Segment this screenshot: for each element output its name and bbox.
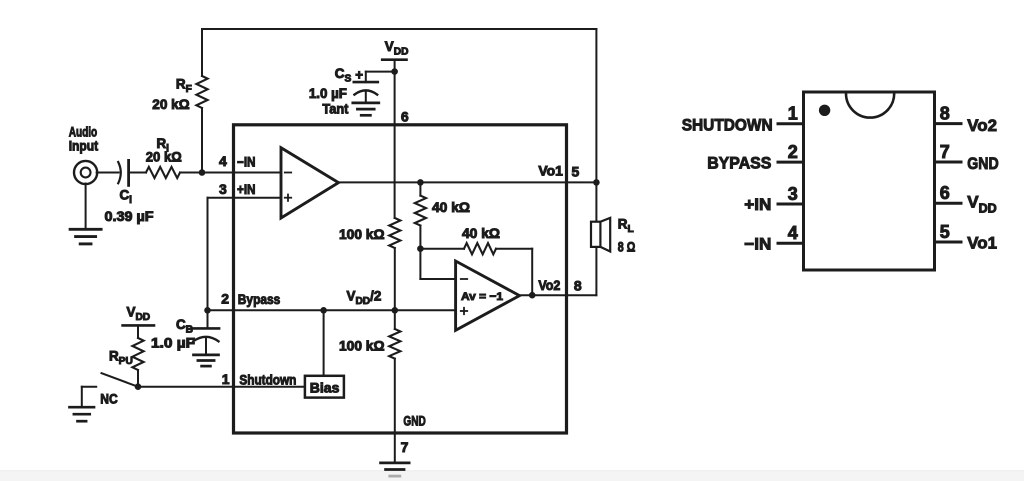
svg-text:CB: CB	[176, 317, 193, 336]
svg-text:VDD: VDD	[127, 305, 151, 324]
switch arm	[102, 373, 139, 387]
node A (input/RF junction)	[199, 169, 206, 176]
svg-text:Shutdown: Shutdown	[239, 373, 296, 388]
label +IN (schematic)	[237, 182, 256, 197]
pin 1 number	[788, 104, 798, 124]
resistor 40k horizontal	[464, 243, 496, 254]
svg-text:6: 6	[401, 109, 409, 125]
label CB	[176, 317, 193, 336]
pin 4 number	[788, 223, 798, 243]
svg-text:−IN: −IN	[744, 234, 771, 253]
wire bypass line	[208, 309, 456, 311]
Bias box	[305, 376, 344, 398]
svg-text:1.0 µF: 1.0 µF	[309, 86, 347, 101]
capacitor CS (polarized)	[354, 82, 378, 102]
VDD supply symbol	[382, 60, 406, 72]
pin 7 stub	[935, 161, 962, 164]
svg-text:−IN: −IN	[237, 155, 256, 170]
pin 8 label Vo2	[967, 116, 997, 135]
svg-text:Bias: Bias	[310, 381, 340, 396]
wire shutdown to Bias	[138, 386, 305, 388]
svg-text:VDD/2: VDD/2	[347, 289, 382, 308]
svg-text:RL: RL	[618, 217, 634, 236]
svg-text:SHUTDOWN: SHUTDOWN	[682, 116, 773, 135]
svg-text:GND: GND	[403, 414, 426, 429]
svg-text:Tant: Tant	[322, 102, 349, 117]
label Vo1 (schematic)	[538, 164, 563, 179]
svg-text:8: 8	[574, 278, 582, 294]
label pin 8	[574, 278, 582, 294]
svg-text:0.39 µF: 0.39 µF	[105, 209, 154, 224]
wire to Bias box	[323, 310, 325, 376]
label Ci	[120, 188, 133, 207]
wire 40k top lead	[419, 182, 421, 195]
ground (switch)	[70, 407, 95, 421]
svg-text:4: 4	[788, 223, 798, 243]
pin 2 stub	[778, 161, 804, 164]
label VDD (shutdown)	[127, 305, 151, 324]
label GND (schematic)	[403, 414, 426, 429]
wire op2 minus input	[420, 249, 455, 279]
op-amp U2	[456, 261, 520, 330]
label 100 kOhm (lower)	[339, 339, 385, 354]
node CB	[204, 307, 211, 314]
wire feedback down to Vo1	[595, 29, 597, 182]
wire RPU to node	[137, 370, 139, 387]
wire VDD to pin 6	[394, 72, 396, 218]
resistor RPU	[132, 338, 143, 370]
resistor Ri	[146, 167, 180, 178]
wire to 40k horizontal	[420, 248, 464, 250]
wire Ci to Ri	[129, 172, 146, 174]
node VDD/2	[392, 307, 399, 314]
svg-text:20 kΩ: 20 kΩ	[146, 150, 182, 165]
VDD bar (shutdown)	[123, 325, 154, 338]
label NC	[100, 392, 118, 407]
svg-text:Bypass: Bypass	[238, 292, 280, 307]
label 8 Ohm	[618, 240, 636, 255]
pin 4 label -IN	[744, 234, 771, 253]
IC boundary box	[234, 125, 567, 433]
svg-text:Vo2: Vo2	[538, 278, 560, 293]
label -IN (schematic)	[237, 155, 256, 170]
label pin 7	[401, 439, 409, 455]
capacitor Ci	[118, 160, 128, 185]
label 40 kOhm (horizontal)	[462, 226, 500, 241]
wire jack to Ci	[97, 172, 119, 174]
svg-text:100 kΩ: 100 kΩ	[339, 339, 385, 354]
label 0.39 uF	[105, 209, 154, 224]
pin 7 label GND	[967, 154, 998, 173]
svg-text:40 kΩ: 40 kΩ	[432, 200, 470, 215]
label 1.0 uF (CB)	[151, 336, 195, 351]
ground (CB)	[194, 355, 219, 366]
capacitor CB	[193, 310, 220, 354]
wire speaker to Vo2	[595, 247, 597, 295]
ground (pin 7)	[381, 463, 410, 476]
label Bias	[310, 381, 340, 396]
label VDD (top)	[385, 39, 409, 58]
package notch	[846, 94, 894, 118]
label Av=-1	[461, 291, 503, 303]
label CS	[335, 66, 352, 85]
wire 40k to Vo2	[496, 249, 532, 296]
resistor 100k lower	[389, 310, 400, 461]
label Audio Input	[69, 125, 99, 154]
pin 7 number	[940, 142, 950, 162]
wire VDD node to CS	[366, 72, 395, 83]
pin 3 label +IN	[744, 195, 771, 214]
label pin 5	[572, 164, 580, 180]
pin 6 label VDD	[967, 193, 996, 216]
node Vo2	[529, 292, 536, 299]
wire jack to ground	[85, 184, 87, 229]
svg-text:BYPASS: BYPASS	[707, 154, 771, 173]
label VDD/2	[347, 289, 382, 308]
wire top feedback	[202, 28, 596, 30]
svg-text:40 kΩ: 40 kΩ	[462, 226, 500, 241]
wire 40k bottom lead	[419, 226, 421, 249]
wire Vo1 to speaker	[595, 182, 597, 221]
pin 6 stub	[935, 202, 962, 205]
svg-text:Vo1: Vo1	[967, 234, 997, 253]
label 20 kOhm (Ri)	[146, 150, 182, 165]
svg-text:VDD: VDD	[967, 193, 996, 216]
label pin 4	[219, 153, 227, 169]
ground (input jack)	[70, 229, 101, 244]
pin 2 number	[788, 142, 798, 162]
pin 3 stub	[778, 203, 804, 206]
resistor RF	[196, 76, 207, 108]
label pin 6	[401, 109, 409, 125]
label RL	[618, 217, 634, 236]
svg-text:2: 2	[788, 142, 798, 162]
label 40 kOhm (vertical)	[432, 200, 470, 215]
switch contact	[82, 387, 96, 407]
svg-text:Vo2: Vo2	[967, 116, 997, 135]
wire op2 output	[520, 294, 597, 296]
label pin 1	[222, 371, 230, 387]
svg-text:7: 7	[401, 439, 409, 455]
svg-text:1: 1	[788, 104, 798, 124]
svg-text:20 kΩ: 20 kΩ	[152, 97, 190, 112]
node Bias junction	[320, 307, 327, 314]
node 40k junction	[417, 245, 424, 252]
pin 5 number	[940, 222, 950, 242]
svg-text:GND: GND	[967, 154, 998, 173]
pin 5 stub	[935, 241, 962, 244]
svg-text:+IN: +IN	[237, 182, 256, 197]
wire +IN pin 3	[208, 198, 282, 311]
label 100 kOhm (upper)	[339, 227, 385, 242]
svg-text:100 kΩ: 100 kΩ	[339, 227, 385, 242]
svg-text:1.0 µF: 1.0 µF	[151, 336, 195, 351]
resistor 100k upper	[389, 218, 400, 310]
node shutdown	[135, 383, 142, 390]
svg-text:2: 2	[221, 291, 229, 307]
label Shutdown (schematic)	[239, 373, 296, 388]
svg-text:5: 5	[572, 164, 580, 180]
pin 2 label BYPASS	[707, 154, 771, 173]
svg-text:Av = −1: Av = −1	[461, 291, 503, 303]
svg-text:3: 3	[788, 184, 798, 204]
svg-text:Audio: Audio	[69, 125, 98, 140]
page bottom band	[0, 471, 1024, 481]
label 20 kOhm (RF)	[152, 97, 190, 112]
svg-text:Ci: Ci	[120, 188, 133, 207]
wire RF top lead	[201, 29, 203, 76]
svg-text:Vo1: Vo1	[538, 164, 563, 179]
node VDD/CS	[391, 68, 398, 75]
svg-text:5: 5	[940, 222, 950, 242]
wire Vo1	[339, 181, 597, 183]
svg-text:+IN: +IN	[744, 195, 771, 214]
node 40k top	[417, 179, 424, 186]
pin 1 marker dot	[819, 105, 830, 116]
wire Ri to -IN pin 4	[180, 172, 281, 174]
label Vo2 (schematic)	[538, 278, 560, 293]
pin 5 label Vo1	[967, 234, 997, 253]
svg-text:4: 4	[219, 153, 227, 169]
label Bypass (schematic)	[238, 292, 280, 307]
resistor 40k vertical	[415, 196, 426, 226]
label Tant	[322, 102, 349, 117]
svg-text:7: 7	[940, 142, 950, 162]
svg-text:NC: NC	[100, 392, 118, 407]
label pin 3	[219, 181, 227, 197]
svg-text:RF: RF	[176, 77, 192, 96]
svg-text:6: 6	[940, 183, 950, 203]
ground (CS)	[353, 103, 379, 115]
pin 1 stub	[778, 122, 804, 125]
node Vo1	[593, 179, 600, 186]
label CS plus	[355, 68, 363, 83]
svg-text:VDD: VDD	[385, 39, 409, 58]
label Ri	[157, 136, 170, 155]
pin 8 number	[940, 103, 950, 123]
svg-text:Input: Input	[69, 139, 99, 154]
svg-text:+: +	[355, 68, 363, 83]
svg-text:8 Ω: 8 Ω	[618, 240, 636, 255]
label RF	[176, 77, 192, 96]
audio input jack J1	[74, 161, 97, 184]
speaker RL	[591, 218, 610, 252]
label 1.0 uF (CS)	[309, 86, 347, 101]
pin 6 number	[940, 183, 950, 203]
svg-text:1: 1	[222, 371, 230, 387]
svg-text:8: 8	[940, 103, 950, 123]
label RPU	[109, 349, 133, 368]
pin 1 label SHUTDOWN	[682, 116, 773, 135]
svg-text:CS: CS	[335, 66, 352, 85]
DIP package outline	[804, 92, 935, 270]
wire RF bottom lead	[201, 108, 203, 173]
pin 4 stub	[778, 242, 804, 245]
op-amp U1	[281, 148, 339, 218]
pin 8 stub	[935, 122, 962, 125]
label pin 2	[221, 291, 229, 307]
pin 3 number	[788, 184, 798, 204]
svg-text:3: 3	[219, 181, 227, 197]
svg-text:RPU: RPU	[109, 349, 133, 368]
